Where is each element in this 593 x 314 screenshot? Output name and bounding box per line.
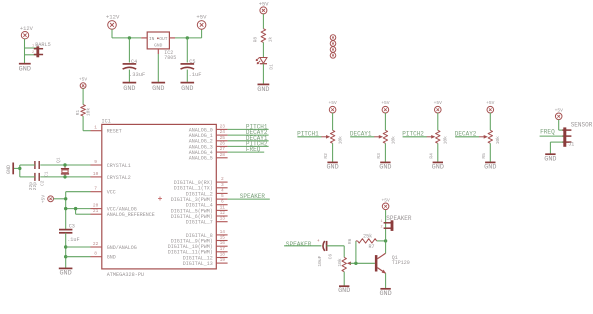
svg-text:DIGITAL_13: DIGITAL_13 xyxy=(183,261,213,267)
svg-text:GND: GND xyxy=(19,66,31,74)
svg-text:25: 25 xyxy=(220,135,226,141)
svg-text:GND: GND xyxy=(6,165,12,174)
svg-text:GND: GND xyxy=(432,163,444,171)
svg-text:GND: GND xyxy=(257,86,269,94)
svg-text:15: 15 xyxy=(220,235,226,241)
svg-text:GND: GND xyxy=(326,163,338,171)
svg-text:RESET: RESET xyxy=(107,129,122,135)
svg-text:FREQ: FREQ xyxy=(540,129,555,136)
svg-text:+5V: +5V xyxy=(41,195,47,204)
svg-text:R7: R7 xyxy=(369,244,375,250)
svg-text:R3: R3 xyxy=(376,153,382,159)
svg-text:22p: 22p xyxy=(32,182,38,191)
svg-text:+5V: +5V xyxy=(381,100,390,106)
svg-text:27: 27 xyxy=(220,146,226,152)
svg-text:D1: D1 xyxy=(269,64,275,70)
svg-text:1: 1 xyxy=(94,125,97,131)
svg-text:.1uF: .1uF xyxy=(67,237,79,243)
svg-text:DIGITAL_7: DIGITAL_7 xyxy=(186,220,213,226)
svg-text:+5V: +5V xyxy=(196,14,207,21)
svg-text:SPEAKER: SPEAKER xyxy=(386,215,412,222)
svg-text:13: 13 xyxy=(220,216,226,222)
svg-text:10k: 10k xyxy=(390,136,396,145)
svg-text:+5V: +5V xyxy=(328,100,337,106)
svg-text:+5V: +5V xyxy=(486,100,495,106)
svg-text:DECAY1: DECAY1 xyxy=(350,131,372,138)
svg-text:GND/ANALOG: GND/ANALOG xyxy=(107,245,137,251)
svg-text:26: 26 xyxy=(220,140,226,146)
svg-text:23: 23 xyxy=(220,123,226,129)
svg-text:C3: C3 xyxy=(69,223,75,229)
svg-text:R8: R8 xyxy=(253,37,259,43)
svg-text:SENSOR: SENSOR xyxy=(571,122,593,129)
svg-text:7805: 7805 xyxy=(164,55,176,61)
svg-text:R5: R5 xyxy=(481,153,487,159)
svg-text:GND: GND xyxy=(154,43,163,49)
svg-text:14: 14 xyxy=(220,229,226,235)
svg-text:IC1: IC1 xyxy=(102,119,111,125)
svg-text:OUT: OUT xyxy=(159,36,168,42)
svg-text:11: 11 xyxy=(220,204,226,210)
svg-text:GND: GND xyxy=(181,85,193,93)
svg-text:CRYSTAL1: CRYSTAL1 xyxy=(107,163,131,169)
svg-text:25k: 25k xyxy=(363,233,372,239)
svg-text:24: 24 xyxy=(220,129,226,135)
svg-text:22: 22 xyxy=(93,241,99,247)
svg-text:Q1: Q1 xyxy=(56,157,62,163)
svg-text:10k: 10k xyxy=(338,136,344,145)
svg-text:.1uF: .1uF xyxy=(189,72,202,78)
svg-text:C2: C2 xyxy=(40,180,46,186)
svg-text:17: 17 xyxy=(220,246,226,252)
svg-text:GND: GND xyxy=(152,85,164,93)
svg-text:GND: GND xyxy=(338,287,350,295)
svg-text:TIP120: TIP120 xyxy=(392,260,410,266)
svg-text:3: 3 xyxy=(221,182,224,188)
svg-text:SPEAKER: SPEAKER xyxy=(286,241,312,248)
svg-text:R6: R6 xyxy=(347,238,353,244)
svg-text:1: 1 xyxy=(381,220,383,224)
svg-text:18: 18 xyxy=(220,252,226,258)
svg-text:5: 5 xyxy=(221,193,224,199)
svg-text:+5V: +5V xyxy=(79,77,88,83)
svg-text:7: 7 xyxy=(94,186,97,192)
svg-text:R2: R2 xyxy=(323,153,329,159)
svg-text:ATMEGA328-PU: ATMEGA328-PU xyxy=(107,272,144,278)
svg-text:6: 6 xyxy=(221,199,224,205)
svg-text:+5V: +5V xyxy=(434,100,443,106)
svg-text:GND: GND xyxy=(484,163,496,171)
svg-text:19: 19 xyxy=(220,257,226,263)
svg-text:10k: 10k xyxy=(443,136,449,145)
svg-text:2: 2 xyxy=(381,225,383,229)
svg-text:ANALOG_REFERENCE: ANALOG_REFERENCE xyxy=(107,212,155,218)
svg-text:8: 8 xyxy=(94,251,97,257)
svg-text:28: 28 xyxy=(220,152,226,158)
svg-text:10: 10 xyxy=(93,171,99,177)
svg-text:C1: C1 xyxy=(44,171,50,177)
svg-text:PITCH2: PITCH2 xyxy=(402,131,424,138)
svg-text:+12V: +12V xyxy=(20,26,34,32)
svg-text:ANALOG_5: ANALOG_5 xyxy=(189,156,213,162)
svg-text:+12V: +12V xyxy=(106,14,120,21)
svg-text:9: 9 xyxy=(94,159,97,165)
svg-text:20: 20 xyxy=(93,203,99,209)
svg-text:GND: GND xyxy=(59,270,71,278)
svg-text:GND: GND xyxy=(107,255,116,261)
svg-text:4: 4 xyxy=(221,187,224,193)
svg-text:10k: 10k xyxy=(495,136,501,145)
svg-text:IN: IN xyxy=(149,36,155,42)
svg-text:10uF: 10uF xyxy=(317,255,323,266)
svg-text:CRYSTAL2: CRYSTAL2 xyxy=(107,175,131,181)
svg-text:.33uF: .33uF xyxy=(129,72,145,78)
svg-text:PITCH1: PITCH1 xyxy=(297,131,319,138)
svg-text:FREQ: FREQ xyxy=(246,146,261,153)
svg-text:R4: R4 xyxy=(428,153,434,159)
svg-text:C5: C5 xyxy=(189,59,195,65)
svg-text:BARL5: BARL5 xyxy=(35,42,51,48)
svg-text:16: 16 xyxy=(220,240,226,246)
svg-text:R1: R1 xyxy=(75,110,81,116)
svg-text:VCC: VCC xyxy=(107,190,116,196)
svg-text:2: 2 xyxy=(32,51,34,55)
svg-text:21: 21 xyxy=(93,208,99,214)
svg-text:C4: C4 xyxy=(131,59,137,65)
svg-text:10k: 10k xyxy=(337,258,343,267)
svg-text:DECAY2: DECAY2 xyxy=(455,131,477,138)
svg-text:SPEAKER: SPEAKER xyxy=(240,193,266,200)
svg-text:J1: J1 xyxy=(568,141,574,147)
svg-text:1: 1 xyxy=(32,45,34,49)
svg-text:GND: GND xyxy=(379,163,391,171)
svg-text:GND: GND xyxy=(123,85,135,93)
svg-text:GND: GND xyxy=(379,290,391,298)
svg-text:GND: GND xyxy=(544,156,556,164)
svg-text:1k: 1k xyxy=(267,37,273,43)
svg-text:12: 12 xyxy=(220,210,226,216)
svg-text:2: 2 xyxy=(221,176,224,182)
svg-text:C6: C6 xyxy=(328,254,334,260)
svg-text:10k: 10k xyxy=(85,108,91,117)
